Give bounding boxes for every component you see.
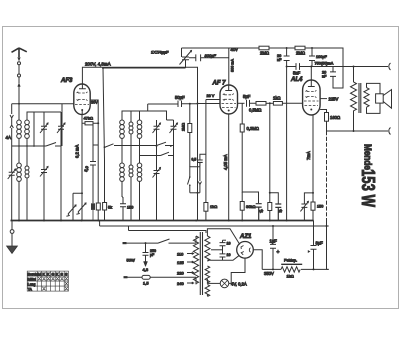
junction field bottom bbox=[353, 130, 355, 132]
resistor 2M grid bbox=[188, 124, 192, 133]
cap 300pF bbox=[189, 54, 229, 61]
AZ1 internals bbox=[241, 246, 251, 255]
pickup terminal top bbox=[389, 63, 391, 70]
junction AL4 plate bbox=[310, 66, 312, 68]
svg-text:47kΩ: 47kΩ bbox=[84, 116, 93, 121]
field choke core bbox=[281, 263, 302, 265]
padder cap 150 bbox=[120, 197, 126, 221]
svg-text:nF: nF bbox=[322, 75, 327, 79]
svg-text:50W: 50W bbox=[127, 258, 135, 263]
table row2 X marks bbox=[38, 277, 68, 291]
mains line top bbox=[125, 239, 196, 243]
mains terminal bottom bbox=[124, 276, 128, 278]
resistor 30k bbox=[240, 202, 244, 211]
secondary winding bbox=[364, 88, 369, 108]
cap 1uF PS bbox=[270, 226, 276, 269]
cap 8uF PS bbox=[311, 221, 317, 270]
tube AF3 envelope bbox=[74, 84, 90, 115]
speaker cone bbox=[383, 90, 391, 109]
svg-text:5k: 5k bbox=[108, 206, 112, 210]
plus 8uF bbox=[308, 250, 311, 253]
filament winding AZ1 bbox=[205, 266, 210, 283]
svg-text:300μF: 300μF bbox=[205, 53, 217, 58]
AL4 screen 225V bbox=[320, 98, 327, 100]
350V line bbox=[262, 268, 281, 270]
bottom right line bbox=[327, 130, 389, 132]
svg-text:5,0: 5,0 bbox=[83, 165, 89, 172]
IF coil bank A2 bbox=[129, 122, 133, 126]
filament lead bbox=[207, 279, 211, 284]
IF coil bank A bbox=[120, 120, 125, 125]
svg-text:0,5: 0,5 bbox=[192, 158, 197, 162]
corner bottom right bbox=[327, 268, 329, 270]
jumper bracket x93-x98 bbox=[93, 144, 98, 146]
svg-text:200V, 4,8mA: 200V, 4,8mA bbox=[85, 62, 111, 67]
screen bypass wire x104.5 bbox=[103, 68, 105, 203]
svg-text:2MΩ: 2MΩ bbox=[260, 51, 269, 56]
trimmer 1X7 bbox=[180, 48, 192, 68]
svg-text:6,2 mA: 6,2 mA bbox=[75, 145, 80, 158]
wire grid AF3 bbox=[12, 104, 74, 146]
svg-text:160Ω: 160Ω bbox=[330, 115, 340, 120]
table row3 X last bbox=[65, 282, 68, 286]
antenna coil secondary bbox=[25, 120, 30, 125]
resistor vol to bus bbox=[268, 203, 272, 211]
pot arrow 1 bbox=[66, 204, 76, 221]
heater winding rx bbox=[205, 285, 210, 297]
svg-text:153 W: 153 W bbox=[358, 169, 378, 207]
svg-text:28 V: 28 V bbox=[207, 94, 215, 98]
junction 1uF bbox=[272, 268, 274, 270]
svg-text:4A: 4A bbox=[6, 135, 12, 140]
junction tone bbox=[312, 192, 314, 194]
svg-text:S: S bbox=[60, 272, 63, 277]
AF3 cathode bbox=[81, 115, 83, 202]
trimmer osc bbox=[153, 146, 161, 221]
band2 coil secondary bbox=[25, 166, 29, 170]
resistor 1k grid AL4 bbox=[273, 102, 282, 106]
svg-text:5nF: 5nF bbox=[293, 71, 301, 76]
pot branch bbox=[270, 193, 279, 204]
main ground bus bbox=[11, 220, 314, 222]
osc coil bank B1 bbox=[120, 163, 125, 168]
tube AL4 envelope bbox=[303, 80, 321, 115]
tube AF7 envelope bbox=[220, 85, 238, 114]
cap chain top hook bbox=[223, 239, 227, 241]
svg-text:1kΩ: 1kΩ bbox=[273, 96, 281, 101]
trimmer C band2 bbox=[40, 165, 48, 221]
transformer core power bbox=[200, 232, 202, 295]
svg-text:TA: TA bbox=[28, 287, 33, 291]
junction mains bbox=[145, 242, 147, 244]
pilot lamp bbox=[220, 279, 229, 288]
junction vol2 bbox=[269, 192, 271, 194]
svg-text:1μ: 1μ bbox=[258, 208, 264, 214]
cap 5nF bbox=[296, 63, 300, 70]
table row labels bbox=[28, 272, 40, 291]
svg-text:350V: 350V bbox=[264, 271, 274, 276]
band switch S1 bbox=[12, 143, 61, 221]
svg-text:Feldsp.: Feldsp. bbox=[284, 258, 297, 263]
osc feedback cap 0,5 bbox=[197, 160, 203, 167]
AF7 grid junction bbox=[197, 103, 199, 105]
svg-text:G: G bbox=[51, 272, 54, 277]
resistor 2M b bbox=[295, 46, 305, 50]
cap chain 10nF bbox=[220, 240, 226, 260]
svg-text:10: 10 bbox=[227, 242, 231, 246]
junction osc bbox=[197, 192, 199, 194]
field coil bbox=[351, 67, 357, 132]
antenna bbox=[12, 48, 27, 57]
cathode bypass wire x93 bbox=[92, 123, 94, 203]
svg-text:K: K bbox=[47, 272, 50, 277]
B+ rail top bbox=[182, 48, 344, 88]
transformer primary bbox=[193, 236, 198, 284]
trimmer C ant1 bbox=[40, 112, 48, 146]
trimmer IF1 bbox=[153, 120, 161, 146]
svg-text:2MΩ: 2MΩ bbox=[296, 51, 305, 56]
AZ1 filament bottom bbox=[229, 258, 245, 283]
tone trimmer bbox=[300, 201, 308, 220]
table header letters bbox=[38, 272, 68, 277]
svg-text:0,5MΩ: 0,5MΩ bbox=[249, 108, 261, 113]
svg-text:pF: pF bbox=[150, 253, 155, 257]
cap mid to winding bbox=[211, 249, 223, 251]
svg-text:Bereich: Bereich bbox=[28, 272, 40, 276]
switch S2b bbox=[140, 146, 174, 221]
svg-text:110: 110 bbox=[177, 252, 184, 257]
HV secondary bbox=[205, 236, 210, 261]
svg-text:K: K bbox=[42, 272, 45, 277]
svg-text:10: 10 bbox=[227, 253, 231, 257]
osc coil bank B2 bbox=[129, 165, 133, 169]
AZ1 cathode out bbox=[253, 250, 262, 270]
heater drop bbox=[100, 221, 129, 231]
wire secondary top bbox=[27, 112, 34, 146]
band2 coil primary bbox=[17, 163, 22, 168]
osc arrow branch bbox=[198, 167, 201, 193]
svg-text:125: 125 bbox=[177, 260, 184, 265]
trimmer C ant2 bbox=[57, 112, 65, 146]
cap vol bbox=[275, 204, 281, 221]
HV bottom lead to AZ1 anode2 bbox=[207, 255, 239, 260]
AF3 screen stub 30V bbox=[91, 100, 99, 203]
transformer core bbox=[359, 83, 361, 113]
svg-text:AF 7: AF 7 bbox=[212, 81, 227, 87]
switch S0 blade bbox=[105, 144, 123, 148]
svg-text:Mende: Mende bbox=[362, 144, 373, 170]
cap 1uF mid bbox=[256, 204, 262, 221]
osc feedback bracket bbox=[200, 154, 206, 160]
heater line 1 bbox=[100, 225, 329, 227]
tube AF3 internals bbox=[79, 83, 86, 89]
switch S2a bbox=[122, 142, 174, 145]
svg-text:+: + bbox=[277, 250, 280, 256]
electrolytic 93 bbox=[91, 203, 95, 210]
resistor 105 box bbox=[103, 203, 107, 211]
pickup terminal bottom bbox=[389, 128, 391, 135]
svg-text:2MΩ: 2MΩ bbox=[182, 123, 186, 131]
AF7 top cap wire 40V bbox=[228, 48, 230, 85]
jumper y193 bbox=[73, 193, 82, 204]
osc switch blade bbox=[188, 177, 190, 193]
svg-text:Lang: Lang bbox=[28, 282, 36, 286]
antenna spark gap bbox=[18, 58, 21, 61]
AL4 cathode bbox=[312, 115, 314, 193]
resistor 160 bbox=[325, 113, 329, 122]
bus junction dots bbox=[18, 220, 20, 222]
wire y112 ant bbox=[27, 111, 61, 113]
svg-text:5μF: 5μF bbox=[243, 94, 251, 99]
resistor 150 cathode bbox=[311, 202, 315, 210]
speaker box bbox=[376, 94, 384, 103]
wire osc to bus bbox=[197, 193, 199, 221]
tone cap 20nF bbox=[330, 67, 337, 89]
secondary loop to speaker bbox=[367, 83, 381, 113]
AF7 plate wire bbox=[238, 102, 245, 104]
osc branch split bbox=[190, 167, 200, 177]
resistor 47k AF3 bbox=[85, 122, 93, 125]
svg-text:50μF: 50μF bbox=[175, 95, 185, 100]
AF7 grid wire bbox=[198, 104, 221, 193]
svg-text:225V: 225V bbox=[329, 97, 339, 102]
svg-text:4,8: 4,8 bbox=[143, 267, 149, 272]
cap 5uF coupling bbox=[247, 100, 257, 107]
tube AZ1 bbox=[237, 242, 254, 259]
IF coil bank A3 bbox=[137, 120, 142, 125]
junction heater x328 bbox=[326, 225, 328, 227]
trimmer IF2 bbox=[167, 120, 178, 146]
tube AF7 internals bbox=[225, 85, 232, 91]
primary taps bbox=[187, 253, 194, 284]
svg-text:Mittel: Mittel bbox=[28, 277, 36, 281]
resistor 98 box bbox=[96, 203, 100, 210]
osc bottom join bbox=[190, 192, 200, 194]
lightning arrester 4A bbox=[10, 110, 13, 221]
svg-text:240: 240 bbox=[177, 281, 184, 286]
antenna coil primary bbox=[17, 120, 22, 125]
junction 8uF bbox=[313, 268, 315, 270]
AF3 plate top wire 200V bbox=[82, 67, 197, 103]
mains line bottom bbox=[126, 276, 196, 278]
svg-text:30kΩ: 30kΩ bbox=[246, 204, 255, 209]
resistor 0,5M bbox=[256, 102, 266, 106]
cap 5,0 bbox=[90, 162, 96, 166]
line y66.5 bbox=[287, 66, 388, 68]
svg-text:4μ: 4μ bbox=[277, 208, 283, 214]
fuse bbox=[142, 275, 150, 279]
field choke winding bbox=[281, 267, 329, 272]
rail junction dots bbox=[286, 47, 288, 49]
AVC wire x206 bbox=[206, 100, 220, 203]
svg-text:30V: 30V bbox=[91, 101, 98, 105]
svg-text:100pF: 100pF bbox=[316, 55, 327, 59]
mains terminal top bbox=[123, 242, 127, 244]
junction vol bbox=[269, 102, 271, 104]
svg-text:S: S bbox=[65, 272, 68, 277]
table row4 X col2 and last bbox=[42, 287, 68, 291]
ground symbol bbox=[10, 221, 14, 247]
svg-text:1μF: 1μF bbox=[270, 239, 278, 244]
svg-text:K: K bbox=[56, 272, 59, 277]
volume pot wire bbox=[269, 103, 271, 193]
svg-text:1X7/4μμF: 1X7/4μμF bbox=[151, 50, 169, 55]
svg-text:nF: nF bbox=[277, 58, 282, 62]
cap 50uF bbox=[178, 101, 198, 108]
table frame bbox=[27, 271, 68, 291]
AF7 cathode 4,05mA bbox=[228, 114, 230, 221]
tone branch AL4 bbox=[304, 193, 313, 204]
svg-text:150: 150 bbox=[127, 206, 133, 210]
svg-text:4,05 mA: 4,05 mA bbox=[223, 154, 228, 170]
svg-text:1,5: 1,5 bbox=[143, 281, 149, 286]
junction y68 bbox=[102, 67, 104, 69]
cap 20nF screen bbox=[284, 48, 290, 221]
svg-text:800 mA: 800 mA bbox=[231, 58, 235, 72]
heater line 2 bbox=[129, 231, 207, 234]
svg-text:1kΩ: 1kΩ bbox=[287, 274, 294, 279]
arrester series cap bbox=[8, 169, 16, 179]
svg-text:AZ1: AZ1 bbox=[239, 234, 252, 240]
svg-text:AL4: AL4 bbox=[290, 77, 303, 83]
HV top lead to AZ1 anode bbox=[207, 229, 239, 245]
wire padder bbox=[122, 196, 123, 198]
cap 100pF bbox=[309, 48, 315, 67]
wire y111 IF bbox=[122, 111, 167, 120]
lamp cross bbox=[222, 280, 228, 286]
svg-text:0,3MΩ: 0,3MΩ bbox=[247, 126, 259, 131]
resistor 2M a bbox=[259, 46, 269, 50]
svg-text:7mA: 7mA bbox=[306, 151, 311, 160]
svg-text:1kΩ: 1kΩ bbox=[210, 204, 217, 209]
svg-text:8μF: 8μF bbox=[316, 241, 324, 246]
osc coil bank B3 bbox=[137, 163, 142, 168]
resistor 1k bus bbox=[204, 203, 208, 212]
pot arrow 2 bbox=[76, 202, 86, 221]
svg-text:220: 220 bbox=[177, 271, 184, 276]
svg-text:150: 150 bbox=[317, 205, 323, 209]
mains filter cap bbox=[143, 243, 149, 261]
junction field top bbox=[353, 66, 355, 68]
svg-text:750(50)mA: 750(50)mA bbox=[315, 62, 334, 66]
junction IF bbox=[189, 103, 191, 105]
tube AL4 internals bbox=[308, 80, 315, 87]
wire y68 bbox=[103, 67, 186, 69]
wire y104 IF bbox=[148, 104, 178, 111]
resistor 0,3M bbox=[240, 124, 244, 132]
lamp wire left bbox=[211, 282, 220, 284]
AL4 plate wire bbox=[310, 67, 312, 81]
svg-text:AF3: AF3 bbox=[60, 78, 73, 84]
svg-text:4V, 0,2A: 4V, 0,2A bbox=[231, 282, 247, 287]
